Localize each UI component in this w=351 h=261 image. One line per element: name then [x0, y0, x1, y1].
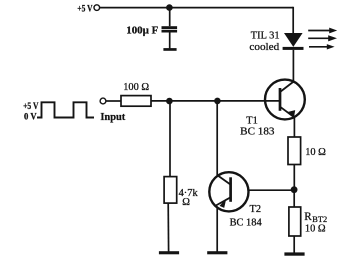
resistor 100 ohm	[121, 82, 151, 106]
svg-text:BC 184: BC 184	[230, 218, 263, 229]
wire capacitor to ground	[169, 33, 171, 49]
svg-text:100µ F: 100µ F	[126, 26, 158, 37]
node +5V supply terminal	[77, 3, 99, 14]
svg-text:100 Ω: 100 Ω	[123, 82, 149, 93]
capacitor 100uF	[126, 26, 177, 37]
transistor T2 BC184	[209, 172, 262, 228]
wire 10 ohm to sense node	[293, 165, 295, 188]
svg-text:BT2: BT2	[312, 215, 327, 224]
wire capacitor feed	[169, 8, 171, 27]
node junction dot input/T2 collector	[214, 98, 221, 105]
resistor 4.7k	[164, 177, 198, 209]
node junction dot supply/capacitor	[166, 4, 173, 11]
svg-text:TIL 31: TIL 31	[251, 31, 280, 42]
svg-text:T1: T1	[246, 115, 258, 126]
input waveform legend	[23, 101, 94, 123]
wire 4.7k to ground	[167, 203, 169, 251]
svg-text:+5 V: +5 V	[77, 3, 92, 14]
node input terminal	[100, 98, 126, 123]
svg-text:Input: Input	[100, 112, 125, 123]
node junction dot sense node	[291, 186, 298, 193]
ground (RBT2)	[284, 252, 304, 255]
light emission arrow 1	[308, 28, 337, 34]
wire sense node to RBT2	[293, 192, 295, 207]
wire T2 base to sense node	[249, 189, 294, 191]
svg-text:cooled: cooled	[249, 42, 280, 53]
node junction dot input/4.7k	[166, 98, 173, 105]
ground (4.7k)	[159, 251, 179, 254]
wire LED cathode to T1 collector	[292, 50, 294, 82]
svg-text:+5 V: +5 V	[23, 101, 38, 112]
svg-text:T2: T2	[250, 204, 262, 215]
svg-text:BC 183: BC 183	[240, 127, 274, 138]
ground (T2 emitter)	[207, 251, 227, 254]
wire R100 to T1 base	[151, 100, 280, 102]
svg-text:0 V: 0 V	[24, 111, 37, 122]
light emission arrow 3	[309, 44, 335, 49]
wire input terminal to R 100	[106, 100, 121, 102]
svg-text:R: R	[304, 211, 312, 223]
ground (capacitor)	[163, 48, 176, 51]
svg-text:10 Ω: 10 Ω	[305, 147, 326, 158]
wire junction to T2 collector	[216, 101, 218, 175]
wire RBT2 to ground	[293, 236, 295, 253]
light emission arrow 2	[308, 35, 337, 41]
resistor 10 ohm	[288, 137, 326, 165]
svg-text:Ω: Ω	[182, 197, 190, 208]
LED TIL31 D1	[249, 31, 303, 53]
wire supply rail drop to LED	[292, 7, 294, 33]
svg-text:10 Ω: 10 Ω	[305, 224, 326, 235]
resistor RBT2 10 ohm	[289, 207, 327, 236]
wire T2 emitter to ground	[216, 207, 218, 251]
wire T1 emitter to 10 ohm	[293, 117, 295, 137]
wire top supply rail	[100, 7, 293, 9]
transistor T1 BC183	[240, 80, 305, 138]
wire junction to 4.7k resistor	[169, 101, 171, 177]
